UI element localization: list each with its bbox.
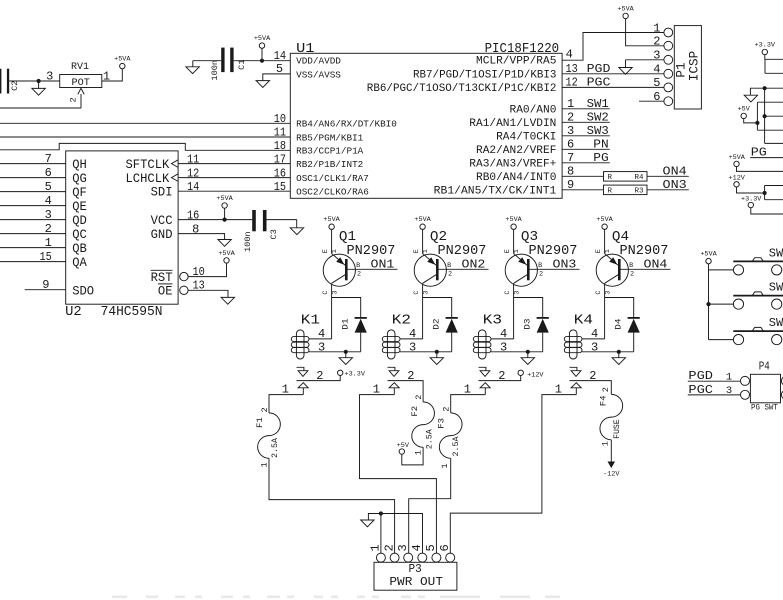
P3 pin 2 circle: [390, 553, 399, 562]
wire +5V feed: [744, 119, 758, 123]
wire QD to left edge: [0, 219, 66, 221]
wire ICSP pin 3 to ground: [626, 59, 664, 61]
wire Q1 base net ON1: [347, 268, 398, 270]
svg-text:13: 13: [566, 62, 578, 76]
wire QG to left edge: [0, 177, 66, 179]
relay K4 coil: [569, 330, 577, 359]
svg-text:4: 4: [45, 194, 52, 208]
wire collector to relay K4 and diode D4: [605, 298, 634, 339]
wire right connector pins: [757, 102, 783, 130]
wire U1 pin 8 to resistor R4: [562, 175, 603, 177]
P1 pin 4 circle: [664, 69, 673, 78]
push button SW3: [733, 330, 783, 332]
wire RB4 to left edge: [0, 122, 290, 124]
svg-text:OSC1/CLK1/RA7: OSC1/CLK1/RA7: [296, 173, 369, 184]
svg-text:PN: PN: [593, 138, 608, 152]
svg-text:PGD: PGD: [688, 370, 713, 383]
wire U2 LCHCLK to U1 OSC1 pin 16: [178, 177, 290, 179]
wire QH to left edge: [0, 163, 66, 165]
svg-text:2.5A: 2.5A: [270, 437, 280, 458]
ground: [38, 81, 40, 88]
svg-text:5: 5: [653, 76, 660, 90]
wire VCC pin 16 to C3: [178, 219, 252, 221]
svg-text:16: 16: [274, 166, 286, 180]
diode D2: [446, 317, 458, 319]
svg-text:4: 4: [591, 327, 598, 341]
svg-text:12: 12: [187, 166, 199, 180]
svg-text:2.5A: 2.5A: [451, 436, 461, 457]
svg-text:F2: F2: [410, 406, 420, 417]
svg-text:QB: QB: [72, 241, 87, 256]
capacitor C1 100n: [221, 48, 224, 73]
connector P3 PWR OUT body: [374, 562, 457, 590]
svg-text:2: 2: [630, 271, 634, 279]
wire F4 to -12V: [610, 440, 612, 462]
wire +12V feed: [737, 187, 765, 193]
fuse F3: [439, 413, 462, 458]
P1 pin 2 circle: [664, 41, 673, 50]
svg-text:10: 10: [193, 265, 205, 279]
P1 pin 5 circle: [664, 83, 673, 92]
svg-text:14: 14: [187, 180, 199, 194]
svg-text:3: 3: [726, 385, 732, 397]
svg-text:1: 1: [513, 249, 521, 253]
svg-text:MCLR/VPP/RA5: MCLR/VPP/RA5: [476, 56, 556, 68]
node K1 pin3 junction: [344, 350, 348, 354]
svg-text:11: 11: [274, 126, 286, 140]
wire OE to ground: [188, 290, 228, 297]
svg-text:8: 8: [192, 222, 199, 236]
svg-text:SDO: SDO: [72, 283, 94, 298]
svg-text:1: 1: [601, 441, 611, 446]
svg-text:R: R: [608, 188, 613, 196]
wire right connector lower pins: [765, 186, 783, 200]
svg-text:12: 12: [566, 76, 578, 90]
potentiometer RV1: [60, 75, 102, 88]
svg-text:PIC18F1220: PIC18F1220: [485, 41, 560, 57]
fuse F4: [600, 394, 623, 439]
svg-text:2.5A: 2.5A: [425, 428, 435, 449]
wire Q3 base net ON3: [529, 268, 580, 270]
svg-text:4: 4: [500, 327, 507, 341]
wire QB to left edge: [0, 247, 66, 249]
wire F3 to P3 pin 3: [409, 458, 451, 553]
wire to button SW1: [709, 269, 734, 271]
wire U1 pin 1 net SW1: [562, 108, 610, 110]
wire Q2 collector: [422, 283, 424, 297]
svg-text:3: 3: [567, 124, 574, 138]
svg-text:5: 5: [45, 180, 52, 194]
U2 RST bubble pin 10: [180, 272, 188, 280]
ground at VSS: [256, 81, 269, 88]
P1 pin 6 circle: [664, 97, 673, 106]
svg-text:4: 4: [653, 63, 660, 77]
svg-text:4: 4: [410, 544, 424, 551]
power +3.3V lower right: [748, 202, 753, 207]
wire RB5 to left edge: [0, 136, 290, 138]
wire ground bus right: [765, 88, 783, 143]
svg-text:R: R: [608, 174, 613, 182]
svg-text:RA1/AN1/LVDIN: RA1/AN1/LVDIN: [469, 118, 556, 130]
svg-text:GND: GND: [151, 227, 173, 242]
svg-text:VSS/AVSS: VSS/AVSS: [296, 69, 341, 80]
svg-text:4: 4: [566, 48, 573, 62]
svg-text:6: 6: [438, 544, 452, 551]
svg-text:+5VA: +5VA: [596, 216, 613, 224]
power +5VA at buttons: [706, 258, 711, 263]
svg-text:4: 4: [409, 327, 416, 341]
ground at K4 pin 3: [618, 352, 620, 358]
power -12V arrow: [608, 462, 616, 469]
svg-text:C: C: [413, 291, 421, 295]
wire +5VA to Q2 emitter: [422, 229, 424, 253]
wire U2 SDI to U1 OSC2 pin 15: [178, 190, 290, 192]
wire Q1 collector: [331, 283, 333, 297]
power +5VA at VDD: [259, 43, 264, 48]
svg-text:QH: QH: [72, 157, 87, 172]
svg-text:1: 1: [653, 21, 660, 35]
svg-text:100n: 100n: [243, 231, 253, 252]
svg-text:3: 3: [423, 291, 431, 295]
node P3 ground junction: [379, 511, 383, 515]
P3 pin 4 circle: [418, 553, 427, 562]
svg-text:1: 1: [726, 372, 732, 384]
ground at U2 GND: [218, 240, 231, 247]
diode D4: [628, 317, 640, 319]
svg-text:2: 2: [382, 544, 396, 551]
ground at K3 pin 3: [527, 352, 529, 358]
wire U1 MCLR pin 4 to ICSP pin 1: [562, 33, 664, 61]
node +5V junction: [755, 121, 759, 125]
fuse F2: [412, 402, 435, 447]
svg-text:SDI: SDI: [151, 184, 173, 199]
relay K1 coil: [296, 330, 304, 359]
relay K2 coil: [387, 330, 395, 359]
svg-text:3: 3: [332, 291, 340, 295]
svg-text:10: 10: [274, 112, 286, 126]
resistor R4: [604, 172, 648, 182]
svg-text:+12V: +12V: [729, 175, 746, 183]
node K4 pin3 junction: [617, 350, 621, 354]
wire to button SW3: [709, 339, 734, 341]
node +12V junction: [763, 191, 767, 195]
node button bus: [706, 302, 710, 306]
svg-text:9: 9: [567, 178, 574, 192]
ground at C3: [296, 220, 298, 228]
svg-text:+3.3V: +3.3V: [741, 195, 762, 203]
svg-text:1: 1: [260, 462, 270, 467]
transistor Q3 PN2907: [505, 254, 537, 286]
wire RST to +5VA: [188, 263, 226, 277]
relay K1 contact: [297, 367, 304, 370]
power +12V right column: [734, 182, 739, 187]
relay K4 contact: [570, 367, 577, 370]
svg-text:ON4: ON4: [644, 258, 668, 272]
relay K2 contact: [388, 367, 395, 370]
wire U1 pin 9 to resistor R3: [562, 189, 603, 191]
svg-text:ON3: ON3: [553, 258, 577, 272]
wire K4 pin 2 to fuse F4: [570, 381, 612, 395]
svg-text:2: 2: [567, 111, 574, 125]
svg-text:RB0/AN4/INT0: RB0/AN4/INT0: [476, 172, 556, 184]
svg-text:2: 2: [260, 407, 270, 412]
svg-text:SW2: SW2: [587, 111, 609, 125]
power +5VA at Q1: [329, 224, 334, 229]
wire PGD to P4 pin 1: [688, 380, 741, 382]
svg-text:-12V: -12V: [603, 470, 620, 478]
svg-text:ON4: ON4: [663, 165, 687, 179]
svg-text:+12V: +12V: [527, 372, 544, 380]
svg-text:D2: D2: [432, 319, 442, 330]
svg-text:2: 2: [69, 97, 79, 102]
svg-text:U2: U2: [65, 304, 82, 320]
P3 pin 3 circle: [404, 553, 413, 562]
wire +3.3V lower: [751, 208, 783, 214]
IC U2 74HC595N body: [66, 151, 178, 304]
transistor Q1 PN2907: [323, 254, 355, 286]
power +5V at F2: [399, 449, 404, 454]
ground at K2 pin 3: [436, 352, 438, 358]
wire to +5VA: [261, 48, 263, 60]
svg-text:ICSP: ICSP: [687, 51, 702, 81]
svg-text:POT: POT: [72, 77, 90, 89]
svg-text:+5VA: +5VA: [323, 216, 340, 224]
wire K4 coil pin 4: [582, 338, 605, 340]
diode D3: [537, 317, 549, 319]
svg-text:3: 3: [653, 49, 660, 63]
svg-text:+5VA: +5VA: [254, 35, 271, 43]
svg-text:14: 14: [274, 49, 286, 63]
svg-text:11: 11: [187, 152, 199, 166]
svg-text:3: 3: [500, 340, 507, 354]
svg-text:C: C: [504, 291, 512, 295]
svg-text:2: 2: [601, 387, 611, 392]
wire Q2 base net ON2: [438, 268, 489, 270]
power +5VA at Q4: [602, 224, 607, 229]
wire U1 pin 2 net SW2: [562, 121, 610, 123]
svg-text:3: 3: [46, 69, 53, 83]
svg-text:+3.3V: +3.3V: [345, 370, 366, 378]
wire C1 to U1 VDD pin 14: [234, 60, 291, 62]
power +12V at K3: [518, 370, 523, 375]
svg-text:E: E: [413, 249, 421, 253]
svg-text:RB3/CCP1/P1A: RB3/CCP1/P1A: [296, 146, 364, 157]
svg-text:RA0/AN0: RA0/AN0: [510, 104, 557, 116]
wire K4 pin 1 to P3 pin 6: [450, 395, 576, 553]
node bus tap: [763, 114, 767, 118]
svg-text:15: 15: [274, 180, 286, 194]
svg-text:3: 3: [591, 340, 598, 354]
svg-text:+5VA: +5VA: [617, 5, 634, 13]
cropped text bottom edge: [112, 596, 560, 599]
svg-text:B: B: [356, 262, 360, 270]
svg-text:+5VA: +5VA: [216, 195, 233, 203]
wire U1 pin 6 net PN: [562, 148, 610, 150]
svg-text:6: 6: [567, 138, 574, 152]
svg-text:2: 2: [653, 35, 660, 49]
svg-text:U1: U1: [296, 41, 314, 57]
wire QE to left edge: [0, 205, 66, 207]
svg-text:1: 1: [414, 450, 424, 455]
wire R4 to net ON4: [647, 175, 689, 177]
svg-text:K2: K2: [392, 312, 411, 328]
wire K1 coil pin 4: [309, 338, 332, 340]
wire ground to P3 pins 1 and 4: [381, 514, 423, 554]
connector P4 body: [750, 374, 780, 403]
svg-text:+5VA: +5VA: [700, 251, 717, 259]
svg-text:P4: P4: [759, 360, 770, 374]
svg-text:FUSE: FUSE: [612, 419, 622, 439]
svg-text:17: 17: [274, 152, 286, 166]
wire to button SW2: [709, 303, 734, 305]
svg-text:C3: C3: [269, 229, 279, 239]
push button SW1: [733, 260, 783, 262]
svg-text:3: 3: [45, 208, 52, 222]
push button SW2: [733, 295, 783, 297]
svg-text:F4: F4: [598, 396, 608, 407]
svg-text:RA3/AN3/VREF+: RA3/AN3/VREF+: [469, 158, 556, 170]
ground at U2 OE: [221, 297, 234, 304]
ground at C1: [186, 67, 199, 74]
svg-text:F3: F3: [437, 418, 447, 429]
capacitor C3 100n: [252, 210, 256, 231]
wire button feed bus: [708, 264, 710, 340]
svg-text:13: 13: [193, 279, 205, 293]
capacitor C2: [0, 69, 1, 94]
svg-text:K4: K4: [574, 312, 593, 328]
svg-text:RB5/PGM/KBI1: RB5/PGM/KBI1: [296, 132, 364, 143]
svg-text:K3: K3: [483, 312, 502, 328]
power +5VA right column: [734, 161, 739, 166]
wire C3 to ground: [267, 219, 297, 221]
wire ground to C1: [193, 60, 221, 62]
svg-text:SW3: SW3: [587, 124, 609, 138]
svg-text:E: E: [322, 249, 330, 253]
wire QA to left edge: [0, 261, 66, 263]
wire +3.3V to connector: [765, 55, 783, 74]
svg-text:C: C: [322, 291, 330, 295]
svg-text:16: 16: [187, 208, 199, 222]
wire +5VA to Q4 emitter: [604, 229, 606, 253]
wire QF to left edge: [0, 191, 66, 193]
RV1 wiper arrow pin 2: [78, 88, 84, 108]
svg-text:7: 7: [45, 152, 52, 166]
svg-text:1: 1: [440, 463, 450, 468]
svg-text:QG: QG: [72, 171, 87, 186]
svg-text:B: B: [629, 262, 633, 270]
svg-text:6: 6: [653, 90, 660, 104]
wire U1 RB7 pin 13 PGD to ICSP pin 4: [562, 73, 664, 75]
wire stub ICSP pin 6: [639, 100, 664, 102]
relay K3 coil: [478, 330, 486, 359]
wire F1 to P3 pin 2: [269, 458, 395, 553]
svg-text:1: 1: [331, 249, 339, 253]
power +3.3V at K1: [338, 370, 343, 375]
resistor R3: [604, 185, 648, 195]
transistor Q2 PN2907: [414, 254, 446, 286]
svg-text:RB7/PGD/T1OSI/P1D/KBI3: RB7/PGD/T1OSI/P1D/KBI3: [413, 69, 556, 81]
svg-text:ON1: ON1: [371, 258, 395, 272]
wire +5VA to ICSP pin 2: [626, 19, 664, 46]
svg-text:RB1/AN5/TX/CK/INT1: RB1/AN5/TX/CK/INT1: [434, 185, 557, 197]
power +5V right column: [741, 113, 746, 118]
svg-text:+5VA: +5VA: [729, 154, 746, 162]
svg-text:F1: F1: [255, 417, 265, 428]
power +3.3V top right: [762, 49, 767, 54]
wire +5VA to Q1 emitter: [331, 229, 333, 253]
wire RB3 stepped to left edge: [0, 143, 290, 150]
wire PGC to P4 pin 3: [688, 394, 741, 396]
svg-text:2: 2: [45, 222, 52, 236]
P1 pin 1 circle: [664, 28, 673, 37]
svg-text:1: 1: [604, 249, 612, 253]
svg-text:+5VA: +5VA: [505, 216, 522, 224]
U2 OE bubble pin 13: [180, 286, 188, 294]
node VDD junction: [260, 59, 264, 63]
svg-text:B: B: [447, 262, 451, 270]
wire K1 coil pin 3 to diode: [309, 351, 361, 353]
svg-text:3: 3: [409, 340, 416, 354]
wire Q3 collector: [513, 283, 515, 297]
svg-text:6: 6: [45, 166, 52, 180]
svg-text:4: 4: [318, 327, 325, 341]
wire bus tap right: [765, 115, 783, 117]
svg-text:C2: C2: [10, 81, 20, 91]
wire Q4 collector: [604, 283, 606, 297]
svg-text:2: 2: [448, 271, 452, 279]
svg-text:D4: D4: [614, 319, 624, 330]
P3 pin 6 circle: [446, 553, 455, 562]
power +5VA at U2 VCC: [222, 203, 227, 208]
wire collector to relay K3 and diode D3: [514, 298, 543, 339]
svg-text:5: 5: [424, 544, 438, 551]
svg-text:PG SWT: PG SWT: [751, 402, 778, 412]
svg-text:R3: R3: [634, 188, 644, 196]
svg-text:OE: OE: [158, 283, 173, 298]
svg-text:VDD/AVDD: VDD/AVDD: [296, 56, 341, 67]
node K2 pin3 junction: [435, 350, 439, 354]
svg-text:R4: R4: [634, 174, 644, 182]
power +5VA at RV1: [120, 63, 125, 68]
svg-text:15: 15: [40, 250, 52, 264]
wire GND pin 8: [178, 234, 225, 240]
svg-text:1: 1: [369, 544, 383, 551]
svg-text:3: 3: [514, 291, 522, 295]
ground at P3: [368, 514, 381, 521]
svg-text:SW2: SW2: [769, 281, 783, 295]
wire RV1 pin1 to +5VA: [102, 69, 123, 81]
ground right column: [750, 88, 764, 95]
wire collector to relay K1 and diode D1: [332, 298, 361, 339]
P1 pin 3 circle: [664, 55, 673, 64]
power +5VA at RST: [224, 258, 229, 263]
svg-text:8: 8: [567, 165, 574, 179]
wire U1 pin 7 net PG: [562, 162, 610, 164]
power +5VA at Q3: [511, 224, 516, 229]
node ground bus: [763, 86, 767, 90]
wire K1 pin 2 to +3.3V: [297, 376, 341, 381]
wire K3 coil pin 3 to diode: [491, 351, 543, 353]
wire K2 coil pin 4: [400, 338, 423, 340]
svg-text:E: E: [504, 249, 512, 253]
svg-text:3: 3: [318, 340, 325, 354]
wire K1 pin 1 to fuse F1: [269, 395, 303, 413]
IC U1 PIC18F1220 body: [290, 53, 562, 198]
svg-text:OSC2/CLKO/RA6: OSC2/CLKO/RA6: [296, 187, 369, 198]
svg-text:B: B: [538, 262, 542, 270]
svg-text:C: C: [595, 291, 603, 295]
svg-text:D1: D1: [341, 319, 351, 330]
